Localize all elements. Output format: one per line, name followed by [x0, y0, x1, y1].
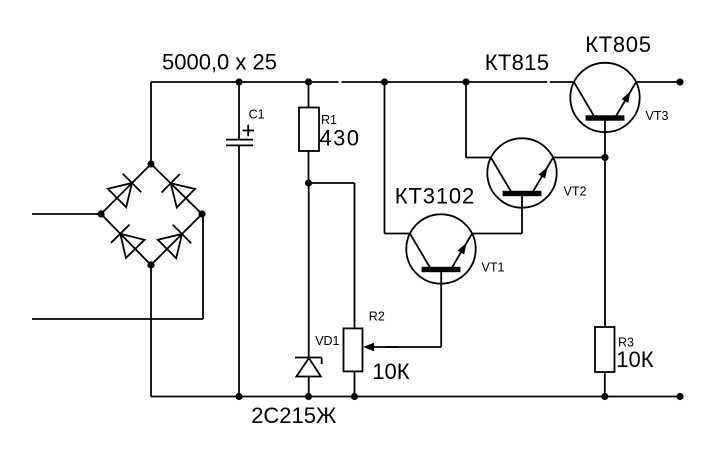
node B VT3 base [601, 154, 608, 161]
svg-text:VT3: VT3 [646, 109, 669, 123]
svg-text:КТ815: КТ815 [485, 50, 549, 75]
svg-text:2С215Ж: 2С215Ж [251, 403, 337, 428]
node output minus terminal [676, 393, 683, 400]
label R2 [369, 310, 385, 324]
svg-text:КТ805: КТ805 [585, 32, 651, 57]
potentiometer R2 [344, 328, 363, 396]
diode bridge lower-left [111, 225, 145, 258]
wire bridge side bottom-right [151, 214, 202, 265]
wire bridge side bottom-left [101, 214, 151, 265]
node A R1-VD1-R2 [305, 179, 312, 186]
diode bridge upper-left [108, 174, 141, 207]
wire node B down to R3 [604, 158, 606, 328]
label R1 value 430 [320, 126, 361, 151]
wire bridge plus to rail [150, 82, 152, 164]
wire rail to VT1 collector riser [384, 82, 386, 234]
svg-text:R2: R2 [369, 310, 385, 324]
node R1 top rail [305, 78, 312, 85]
label R1 [321, 113, 337, 127]
svg-text:VT1: VT1 [482, 261, 505, 275]
transistor VT1 KT3102 [406, 214, 475, 283]
label VD1 type 2C215Zh [251, 403, 337, 428]
wire AC input upper [32, 213, 101, 215]
wire VT1 emitter to VT2 base [472, 233, 522, 235]
svg-text:C1: C1 [249, 108, 265, 122]
node C1 top rail [235, 78, 242, 85]
label VT2 [564, 185, 587, 199]
svg-text:VD1: VD1 [315, 334, 339, 348]
label C1 [249, 108, 265, 122]
wire VT2 emitter to node B [553, 157, 605, 159]
svg-text:10К: 10К [616, 347, 653, 372]
wire VT3 base down to node B [604, 120, 606, 158]
node C1 bottom rail [235, 393, 242, 400]
svg-text:VT2: VT2 [564, 185, 587, 199]
diode bridge upper-right [162, 174, 195, 208]
svg-text:КТ3102: КТ3102 [395, 184, 475, 209]
node bridge minus [147, 261, 154, 268]
capacitor C1 [226, 82, 253, 397]
wire R2 top riser [354, 183, 356, 328]
resistor R3 [595, 327, 615, 397]
label R2 value 10K [372, 359, 409, 384]
wire to VT2 collector [466, 157, 491, 159]
node VT1 collector rail [381, 78, 388, 85]
wire AC input lower [32, 318, 203, 320]
node bridge plus [147, 160, 154, 167]
label R3 [618, 336, 634, 350]
label VT3 [646, 109, 669, 123]
label VT2 type KT815 [485, 50, 549, 75]
wire VT3 emitter to output plus [636, 81, 680, 83]
resistor R1 [299, 82, 319, 183]
wire top positive rail left segment [151, 81, 339, 83]
wire top positive rail middle segment [342, 81, 548, 83]
label VD1 [315, 334, 339, 348]
wire bridge side left-top [101, 164, 151, 214]
diode bridge lower-right [158, 225, 191, 258]
node bridge AC left [97, 210, 104, 217]
zener diode VD1 [295, 183, 322, 397]
wire VT1 base to wiper riser [440, 271, 442, 347]
polarity plus sign C1 [243, 125, 255, 137]
svg-text:5000,0 x 25: 5000,0 x 25 [162, 49, 277, 74]
node R3 bottom rail [601, 393, 608, 400]
wire bridge side top-right [151, 164, 202, 214]
transistor VT2 KT815 [487, 138, 556, 207]
wire node A to R2 top horizontal [309, 182, 355, 184]
wire rail to VT2 collector riser [465, 82, 467, 158]
node output plus terminal [676, 78, 683, 85]
wire bottom negative rail [151, 396, 680, 398]
node R2 bottom rail [351, 393, 358, 400]
label C1 value 5000,0 x 25 [162, 49, 277, 74]
label R3 value 10K [616, 347, 653, 372]
node bridge AC right [198, 210, 205, 217]
wiper arrow R2 [363, 343, 441, 351]
wire AC lower riser [202, 214, 204, 319]
svg-text:10К: 10К [372, 359, 409, 384]
transistor VT3 KT805 [570, 63, 639, 132]
label VT1 [482, 261, 505, 275]
wire VT2 base riser [521, 195, 523, 233]
node VD1 bottom rail [305, 393, 312, 400]
wire bridge minus drop [150, 265, 152, 397]
label VT3 type KT805 [585, 32, 651, 57]
node VT2 collector rail [462, 78, 469, 85]
svg-text:430: 430 [320, 126, 361, 151]
wire to VT1 collector [385, 233, 410, 235]
wire top positive rail right segment [550, 81, 574, 83]
label VT1 type KT3102 [395, 184, 475, 209]
